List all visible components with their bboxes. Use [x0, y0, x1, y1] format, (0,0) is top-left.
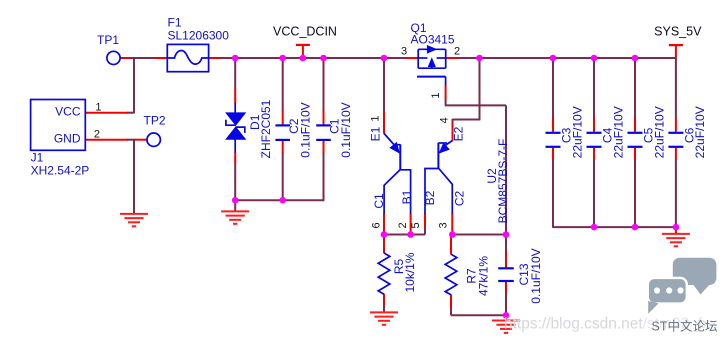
svg-text:1: 1	[369, 115, 381, 121]
svg-text:AO3415: AO3415	[411, 33, 455, 47]
svg-text:SL1206300: SL1206300	[168, 29, 230, 43]
svg-text:22uF/10V: 22uF/10V	[611, 106, 625, 158]
svg-text:3: 3	[438, 222, 450, 228]
svg-text:10k/1%: 10k/1%	[403, 252, 417, 292]
svg-text:TP2: TP2	[144, 114, 166, 128]
svg-text:VCC: VCC	[55, 105, 81, 119]
svg-text:ST中文论坛: ST中文论坛	[652, 319, 718, 334]
svg-text:E1: E1	[369, 126, 383, 141]
svg-text:0.1uF/10V: 0.1uF/10V	[529, 248, 543, 303]
svg-text:J1: J1	[31, 151, 44, 165]
svg-text:2: 2	[94, 129, 100, 141]
svg-text:GND: GND	[54, 132, 81, 146]
svg-text:0.1uF/10V: 0.1uF/10V	[298, 102, 312, 157]
svg-text:2: 2	[397, 222, 409, 228]
svg-text:5: 5	[410, 222, 422, 228]
svg-text:47k/1%: 47k/1%	[476, 256, 490, 296]
svg-text:0.1uF/10V: 0.1uF/10V	[339, 102, 353, 157]
svg-text:1: 1	[95, 102, 101, 114]
svg-text:SYS_5V: SYS_5V	[654, 25, 702, 39]
svg-text:22uF/10V: 22uF/10V	[693, 106, 707, 158]
svg-text:F1: F1	[168, 16, 182, 30]
svg-text:3: 3	[401, 46, 407, 58]
svg-text:B2: B2	[423, 190, 437, 205]
svg-text:C1: C1	[372, 193, 386, 209]
svg-text:XH2.54-2P: XH2.54-2P	[31, 164, 90, 178]
svg-text:VCC_DCIN: VCC_DCIN	[273, 25, 337, 39]
svg-text:BCM857BS-7-F: BCM857BS-7-F	[496, 139, 510, 224]
svg-text:22uF/10V: 22uF/10V	[652, 106, 666, 158]
svg-text:4: 4	[438, 117, 450, 123]
svg-text:C2: C2	[453, 191, 467, 207]
svg-text:B1: B1	[400, 189, 414, 204]
svg-text:2: 2	[454, 46, 460, 58]
svg-text:6: 6	[371, 222, 383, 228]
svg-text:ZHF2C051: ZHF2C051	[259, 99, 273, 158]
svg-text:TP1: TP1	[97, 33, 119, 47]
svg-text:22uF/10V: 22uF/10V	[570, 106, 584, 158]
svg-text:1: 1	[430, 93, 442, 99]
svg-text:E2: E2	[451, 126, 465, 141]
